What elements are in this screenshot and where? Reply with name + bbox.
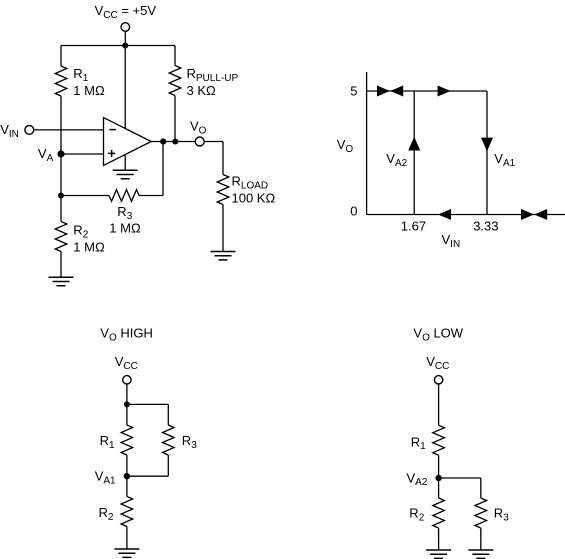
svg-text:R2: R2 xyxy=(99,505,114,523)
svg-text:VCC: VCC xyxy=(115,354,138,372)
svg-text:5: 5 xyxy=(350,84,357,99)
svg-text:VO LOW: VO LOW xyxy=(413,326,463,344)
svg-text:RLOAD: RLOAD xyxy=(232,174,269,192)
svg-text:R1: R1 xyxy=(411,434,426,452)
svg-text:R3: R3 xyxy=(494,506,509,524)
svg-text:1.67: 1.67 xyxy=(401,218,426,233)
svg-text:VA2: VA2 xyxy=(386,151,407,169)
svg-text:1 MΩ: 1 MΩ xyxy=(73,239,105,254)
svg-text:VCC: VCC xyxy=(426,354,449,372)
svg-text:R3: R3 xyxy=(117,204,132,222)
svg-text:VA2: VA2 xyxy=(407,470,428,488)
svg-text:VA1: VA1 xyxy=(494,151,515,169)
svg-text:3 KΩ: 3 KΩ xyxy=(187,83,217,98)
svg-text:R3: R3 xyxy=(182,433,197,451)
svg-text:R1: R1 xyxy=(73,66,88,84)
svg-text:VO HIGH: VO HIGH xyxy=(100,326,153,344)
svg-text:0: 0 xyxy=(350,204,357,219)
svg-text:1 MΩ: 1 MΩ xyxy=(73,83,105,98)
svg-text:100 KΩ: 100 KΩ xyxy=(232,191,276,206)
svg-text:RPULL-UP: RPULL-UP xyxy=(187,66,239,84)
svg-text:VA1: VA1 xyxy=(95,469,116,487)
svg-text:VIN: VIN xyxy=(0,122,19,140)
svg-text:VO: VO xyxy=(337,137,354,155)
svg-text:VO: VO xyxy=(190,119,207,137)
svg-text:VIN: VIN xyxy=(442,232,461,250)
svg-text:VA: VA xyxy=(38,146,54,164)
svg-text:3.33: 3.33 xyxy=(473,218,498,233)
svg-text:1 MΩ: 1 MΩ xyxy=(109,221,141,236)
svg-text:R2: R2 xyxy=(73,223,88,241)
svg-text:VCC = +5V: VCC = +5V xyxy=(95,3,157,21)
svg-text:R1: R1 xyxy=(100,433,115,451)
svg-text:R2: R2 xyxy=(409,506,424,524)
